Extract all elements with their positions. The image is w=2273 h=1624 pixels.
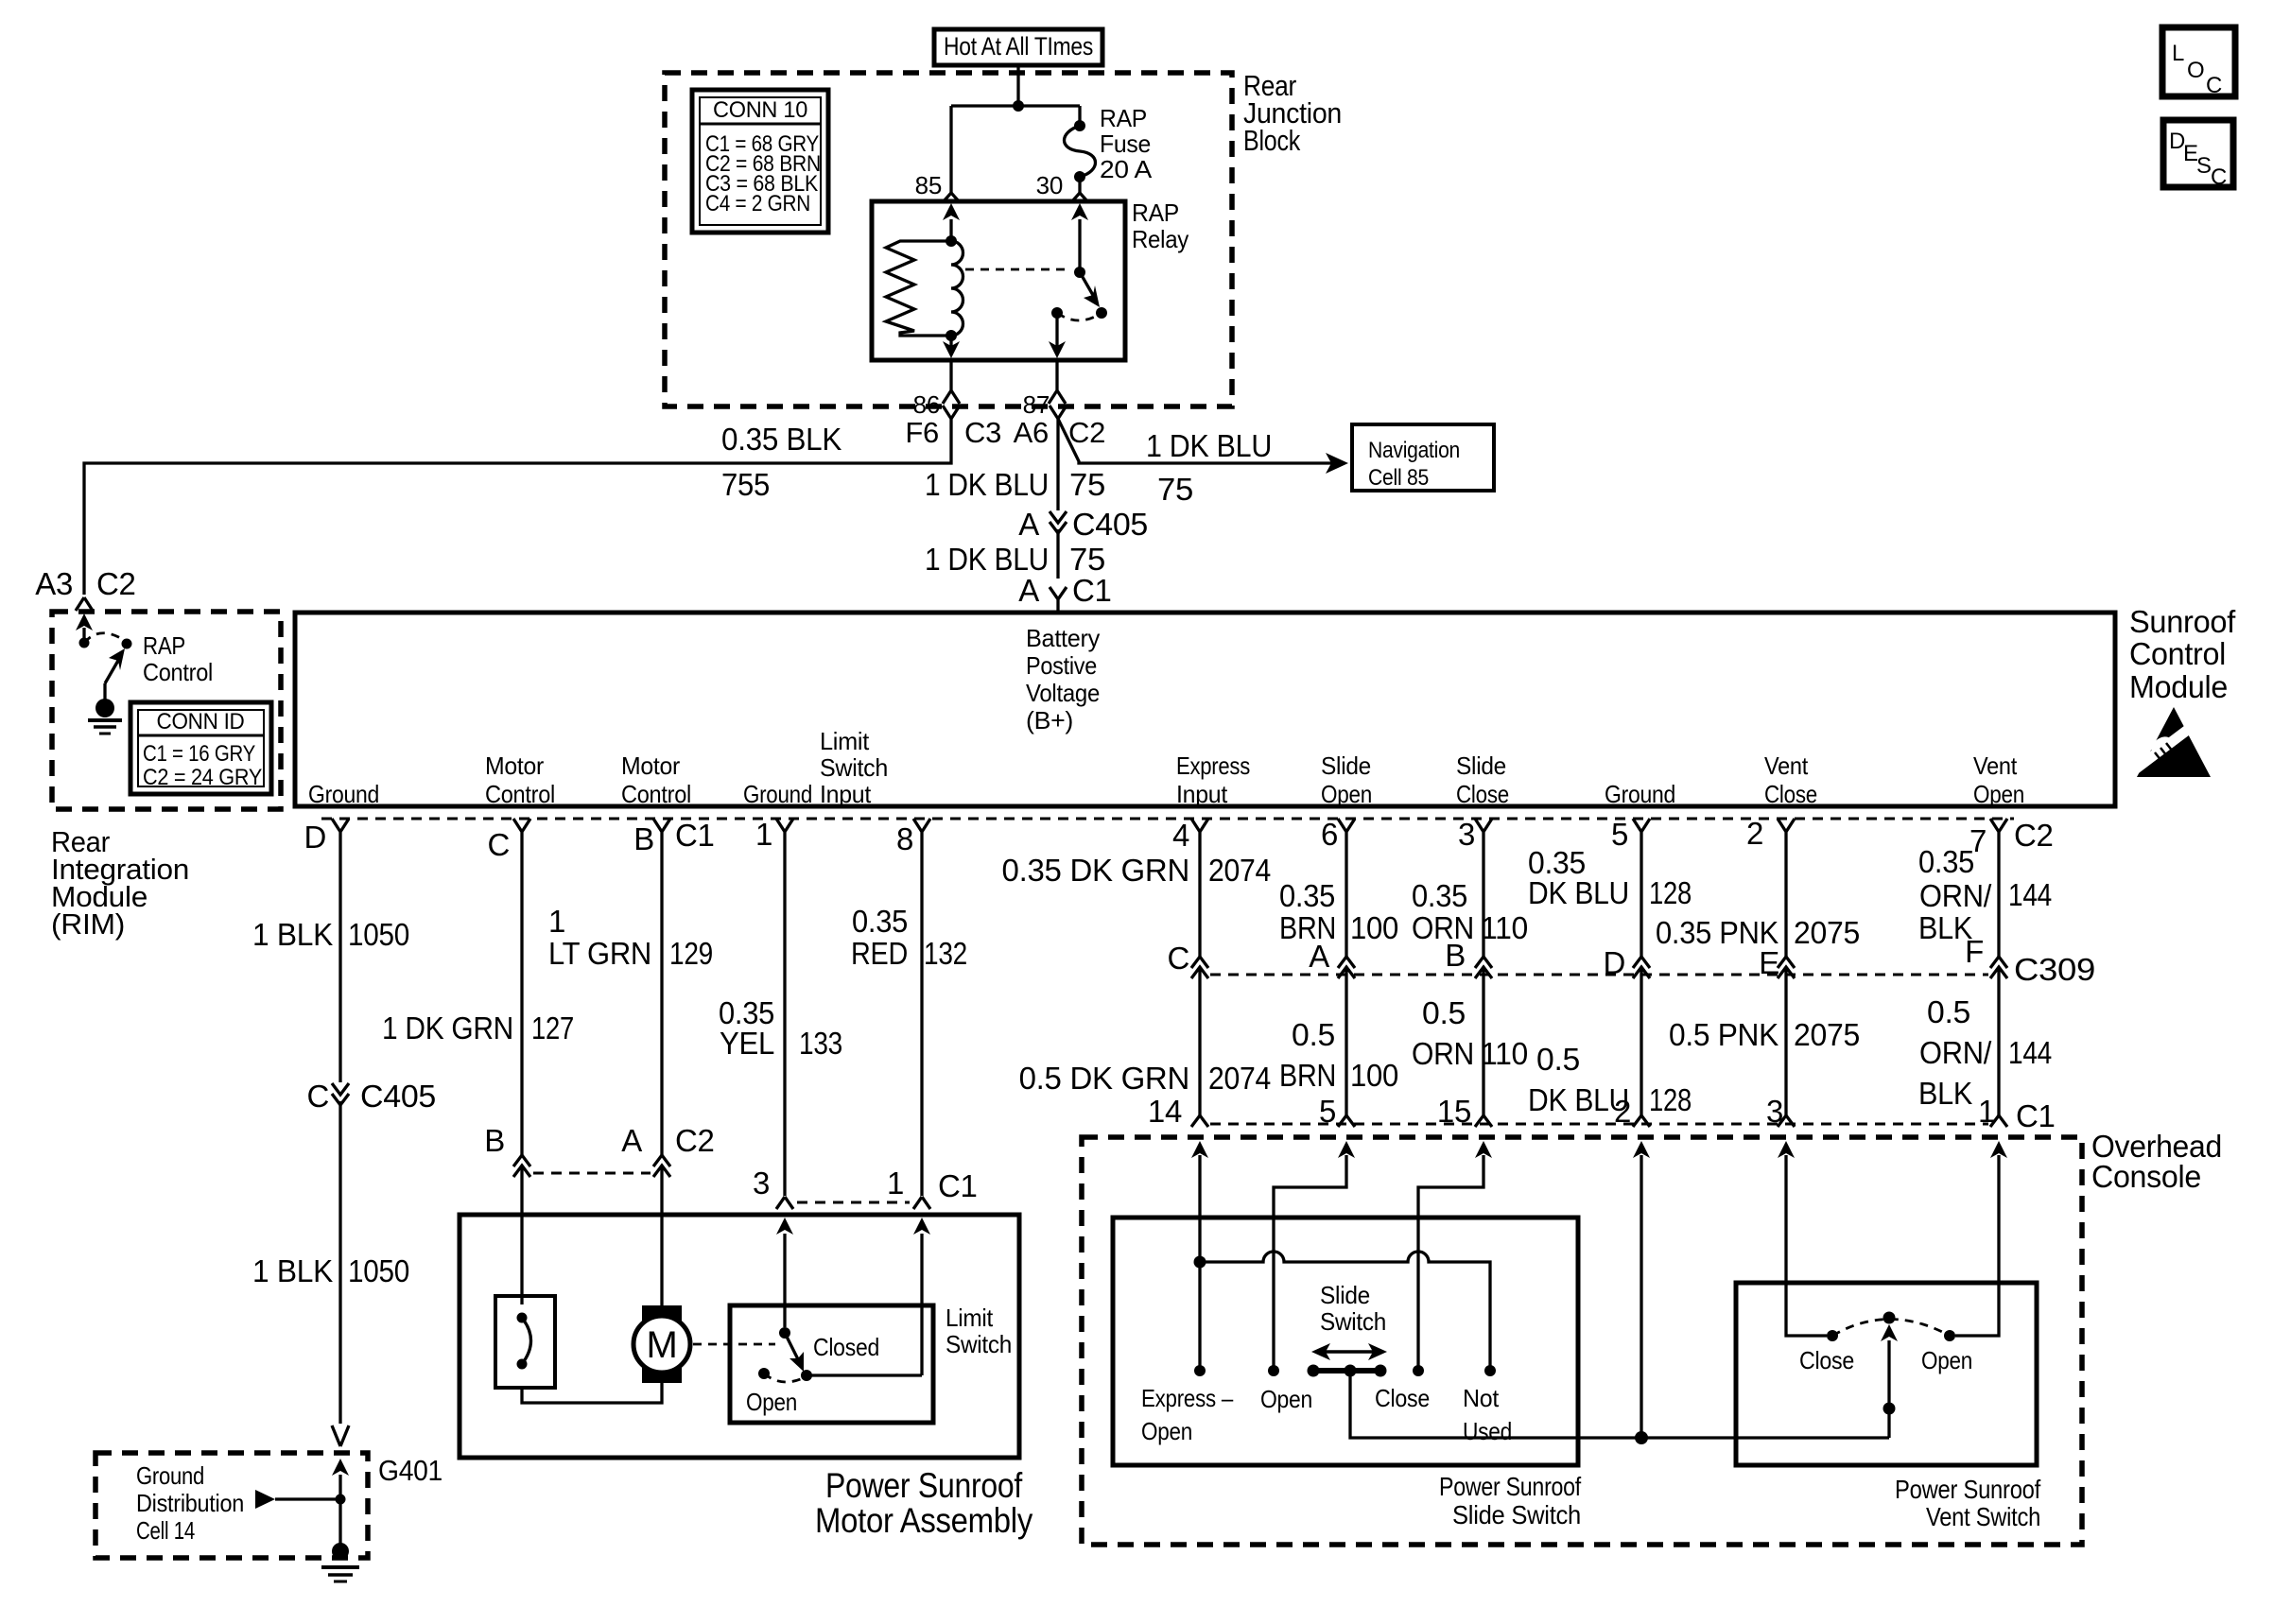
arrowhead navigation	[1326, 453, 1348, 474]
RAP control ground symbol	[88, 720, 122, 734]
contact dots	[1194, 1365, 1206, 1376]
rear junction block dashed box	[665, 73, 1232, 406]
console entry arrow wire 5	[1274, 1155, 1346, 1371]
svg-text:1050: 1050	[348, 917, 409, 952]
wire D lower	[338, 1101, 341, 1424]
svg-text:Open: Open	[1321, 780, 1372, 808]
CONN ID table	[130, 702, 271, 794]
svg-text:Open: Open	[746, 1388, 797, 1416]
svg-text:CONN ID: CONN ID	[157, 709, 245, 734]
wire upper x=1269	[1198, 870, 1201, 957]
slide double arrow	[1311, 1343, 1387, 1360]
svg-text:Vent: Vent	[1764, 752, 1809, 780]
svg-text:Open: Open	[1973, 780, 2024, 808]
svg-text:Input: Input	[820, 780, 872, 808]
RAP control switch arm	[105, 648, 125, 700]
dashed mechanical linkage	[693, 1343, 775, 1346]
RAP control ground dot	[95, 699, 114, 717]
svg-text:Limit: Limit	[946, 1304, 994, 1332]
svg-text:75: 75	[1157, 472, 1193, 507]
svg-text:2074: 2074	[1208, 853, 1271, 888]
wire battery mid	[1056, 529, 1059, 579]
LOC box	[2162, 27, 2235, 98]
CONN 10 table	[692, 90, 828, 233]
svg-text:RED: RED	[851, 936, 908, 971]
svg-text:128: 128	[1649, 1082, 1692, 1117]
svg-text:ORN/: ORN/	[1919, 878, 1992, 913]
svg-text:87: 87	[1023, 390, 1050, 419]
pin 85 fork	[943, 193, 960, 202]
wire upper x=1889	[1784, 870, 1787, 957]
vent switch box	[1736, 1283, 2037, 1465]
wire 1 ground	[783, 870, 786, 1196]
svg-text:O: O	[2187, 58, 2204, 83]
svg-text:Open: Open	[1141, 1417, 1192, 1445]
svg-text:C1 = 16 GRY: C1 = 16 GRY	[143, 741, 255, 767]
svg-text:6: 6	[1321, 817, 1338, 852]
svg-text:4: 4	[1172, 818, 1189, 853]
svg-text:Control: Control	[621, 780, 691, 808]
limit switch box	[730, 1305, 933, 1423]
svg-text:8: 8	[896, 821, 913, 856]
svg-text:LT GRN: LT GRN	[548, 936, 651, 971]
ground G401 symbol	[332, 1543, 349, 1560]
svg-text:RAP: RAP	[1132, 199, 1179, 227]
svg-text:Open: Open	[1921, 1346, 1972, 1374]
svg-text:110: 110	[1481, 910, 1528, 945]
svg-text:C1: C1	[938, 1168, 978, 1203]
relay contacts	[1051, 307, 1107, 320]
svg-text:Block: Block	[1243, 124, 1301, 157]
svg-text:C2: C2	[1068, 416, 1105, 449]
svg-text:C405: C405	[1072, 507, 1148, 542]
svg-text:14: 14	[1148, 1094, 1182, 1129]
power sunroof motor assembly box	[460, 1215, 1019, 1458]
svg-text:1 BLK: 1 BLK	[252, 917, 333, 952]
svg-text:C309: C309	[2014, 952, 2095, 987]
relay coil	[946, 235, 963, 341]
svg-text:Slide: Slide	[1321, 752, 1371, 780]
svg-text:Ground: Ground	[743, 780, 812, 808]
G401 dashed box	[95, 1453, 368, 1558]
module pin row dashed line	[321, 818, 2014, 821]
svg-text:Control: Control	[143, 658, 213, 686]
svg-text:G401: G401	[378, 1454, 442, 1487]
svg-text:2: 2	[1746, 816, 1763, 851]
bus wire with hops	[1200, 1252, 1490, 1371]
svg-text:C: C	[306, 1079, 329, 1114]
svg-text:F6: F6	[905, 416, 939, 449]
slide switch box	[1113, 1218, 1578, 1465]
svg-text:0.35: 0.35	[852, 904, 908, 939]
svg-text:ORN: ORN	[1412, 1036, 1474, 1071]
junction dot wire 2 output	[1635, 1431, 1648, 1444]
triangle pointer	[255, 1490, 275, 1509]
svg-text:Voltage: Voltage	[1026, 679, 1100, 707]
bus junction dot	[1194, 1256, 1206, 1269]
svg-text:144: 144	[2008, 1035, 2052, 1070]
svg-text:C1: C1	[675, 818, 715, 853]
wire C	[520, 870, 523, 1155]
svg-text:C405: C405	[360, 1079, 436, 1114]
svg-text:129: 129	[669, 936, 713, 971]
svg-text:Relay: Relay	[1132, 225, 1189, 253]
pin 30 fork	[1071, 193, 1088, 202]
svg-text:Closed: Closed	[813, 1333, 879, 1361]
wire 3 arrow into motor box	[783, 1234, 786, 1327]
F6 fork connector	[943, 406, 960, 461]
A6 fork connector	[1050, 406, 1067, 510]
svg-text:1 DK BLU: 1 DK BLU	[925, 467, 1049, 502]
svg-text:Distribution: Distribution	[136, 1489, 244, 1517]
relay output to pin 87 arrow down	[1055, 313, 1058, 346]
svg-text:M: M	[646, 1324, 677, 1366]
svg-text:L: L	[2172, 41, 2184, 66]
svg-text:Slide: Slide	[1320, 1281, 1370, 1309]
svg-text:DK BLU: DK BLU	[1528, 875, 1629, 910]
ground wire arrow in G401	[338, 1475, 341, 1551]
svg-text:Close: Close	[1456, 780, 1509, 808]
svg-text:85: 85	[915, 171, 942, 199]
svg-text:Express: Express	[1176, 752, 1250, 780]
slide common output wire	[1350, 1371, 1889, 1438]
pin forks	[332, 819, 349, 870]
svg-text:Input: Input	[1176, 780, 1228, 808]
motor M	[633, 1305, 690, 1383]
svg-text:C3: C3	[964, 416, 1001, 449]
relay resistor	[886, 241, 951, 336]
svg-text:Switch: Switch	[946, 1330, 1012, 1358]
svg-text:0.5 DK GRN: 0.5 DK GRN	[1019, 1061, 1189, 1096]
svg-text:1: 1	[755, 817, 772, 852]
svg-text:Power Sunroof: Power Sunroof	[825, 1466, 1023, 1505]
wire from hot box	[1016, 65, 1019, 106]
pin 86 wire	[943, 360, 960, 404]
wire D upper	[338, 870, 341, 1082]
svg-text:C2: C2	[675, 1123, 715, 1158]
svg-text:Close: Close	[1764, 780, 1817, 808]
svg-text:F: F	[1965, 934, 1984, 969]
svg-text:Used: Used	[1463, 1417, 1512, 1445]
junction node dot	[1013, 100, 1024, 112]
svg-text:(B+): (B+)	[1026, 706, 1073, 734]
G401 fork	[332, 1425, 349, 1446]
svg-text:75: 75	[1069, 467, 1105, 502]
svg-text:C: C	[2211, 164, 2227, 190]
svg-text:755: 755	[721, 467, 770, 502]
svg-text:Power Sunroof: Power Sunroof	[1895, 1475, 2040, 1504]
svg-text:YEL: YEL	[720, 1026, 774, 1061]
svg-text:0.5: 0.5	[1292, 1017, 1335, 1052]
svg-text:C: C	[2206, 73, 2222, 98]
svg-text:Fuse: Fuse	[1100, 130, 1151, 158]
svg-text:132: 132	[924, 936, 967, 971]
wire breaker to motor	[522, 1383, 662, 1403]
svg-text:Ground: Ground	[308, 780, 379, 808]
vent common wire arrow	[1881, 1324, 1898, 1438]
svg-text:75: 75	[1069, 542, 1105, 577]
svg-text:Ground: Ground	[136, 1461, 204, 1490]
svg-text:(RIM): (RIM)	[51, 907, 125, 941]
RAP control dashed arc	[84, 633, 127, 643]
svg-text:Cell 14: Cell 14	[136, 1516, 195, 1545]
pin 87 wire	[1049, 360, 1066, 404]
RAP Fuse 20 A	[1065, 120, 1096, 193]
svg-text:2075: 2075	[1794, 1017, 1860, 1052]
svg-text:Motor: Motor	[485, 752, 545, 780]
svg-text:Switch: Switch	[1320, 1307, 1386, 1336]
svg-text:Switch: Switch	[820, 753, 888, 782]
svg-text:0.35: 0.35	[1918, 844, 1974, 879]
console entry arrow wire 2	[1640, 1155, 1642, 1438]
console entry arrow wire 15	[1418, 1155, 1484, 1371]
svg-text:B: B	[484, 1123, 505, 1158]
svg-text:RAP: RAP	[143, 631, 185, 660]
console entry arrow wire 1 vent	[1955, 1155, 1999, 1336]
wire pointer to ground wire	[275, 1497, 340, 1500]
svg-text:ORN/: ORN/	[1919, 1035, 1992, 1070]
svg-text:1 DK GRN: 1 DK GRN	[382, 1011, 513, 1045]
wire left leg to relay pin 85	[949, 106, 952, 193]
relay dashed actuator link	[965, 268, 1068, 271]
svg-text:RAP: RAP	[1100, 104, 1147, 132]
svg-text:S: S	[2196, 153, 2212, 179]
svg-text:Slide: Slide	[1456, 752, 1506, 780]
svg-text:C2: C2	[2014, 818, 2054, 853]
wire upper x=1569	[1482, 870, 1484, 957]
RAP control contact dot left	[79, 638, 90, 648]
svg-text:C2: C2	[96, 566, 136, 601]
wire 0.35 BLK 755	[84, 461, 951, 595]
svg-text:Console: Console	[2091, 1159, 2201, 1194]
svg-text:Module: Module	[2129, 669, 2228, 704]
svg-text:A: A	[621, 1123, 642, 1158]
svg-text:B: B	[1445, 938, 1466, 973]
A3 fork	[76, 597, 93, 611]
thermal breaker	[495, 1296, 555, 1388]
DESC box	[2163, 120, 2233, 190]
Hot At All Times box	[934, 29, 1102, 65]
svg-text:30: 30	[1036, 171, 1063, 199]
limit switch closed contact wire	[807, 1373, 922, 1376]
svg-text:B: B	[633, 821, 654, 856]
svg-text:C1: C1	[1072, 573, 1112, 608]
svg-text:A: A	[1018, 573, 1039, 608]
wire upper x=1736	[1640, 870, 1642, 957]
svg-text:20 A: 20 A	[1100, 155, 1153, 183]
relay coil to pin 86 arrow down	[949, 336, 952, 346]
svg-text:Ground: Ground	[1605, 780, 1675, 808]
svg-text:C1: C1	[2016, 1098, 2056, 1133]
overhead console dashed box	[1082, 1137, 2082, 1545]
svg-text:2075: 2075	[1794, 915, 1860, 950]
svg-text:0.5: 0.5	[1927, 994, 1970, 1029]
svg-text:0.5: 0.5	[1422, 995, 1466, 1030]
slider bar	[1308, 1365, 1387, 1377]
console entry arrow wire 3 vent	[1786, 1155, 1827, 1336]
svg-text:0.35: 0.35	[1279, 878, 1335, 913]
svg-text:Limit: Limit	[820, 727, 870, 755]
svg-text:Motor: Motor	[621, 752, 681, 780]
svg-text:Battery: Battery	[1026, 624, 1100, 652]
svg-text:Control: Control	[2129, 636, 2226, 671]
svg-text:A6: A6	[1014, 416, 1049, 449]
svg-text:1 DK BLU: 1 DK BLU	[1146, 428, 1272, 463]
sunroof control module box	[295, 613, 2115, 806]
connector A C1	[1018, 573, 1111, 613]
svg-text:Vent: Vent	[1973, 752, 2018, 780]
relay switch pin arrow	[1078, 219, 1081, 272]
wire horizontal branch	[951, 104, 1080, 107]
wire 1 arrow into motor box	[920, 1234, 923, 1375]
wire branch to navigation	[1058, 419, 1334, 463]
svg-text:128: 128	[1649, 875, 1692, 910]
console entry arrow wire 14	[1198, 1155, 1201, 1262]
svg-text:0.5 PNK: 0.5 PNK	[1669, 1017, 1778, 1052]
svg-text:1 BLK: 1 BLK	[252, 1253, 333, 1288]
svg-text:A3: A3	[35, 566, 73, 601]
svg-text:127: 127	[531, 1011, 574, 1045]
svg-text:3: 3	[1458, 817, 1475, 852]
svg-text:Postive: Postive	[1026, 651, 1097, 680]
svg-text:110: 110	[1481, 1036, 1528, 1071]
svg-text:1: 1	[548, 904, 565, 939]
svg-text:86: 86	[913, 390, 940, 419]
svg-text:Hot At All TImes: Hot At All TImes	[944, 32, 1093, 60]
RAP relay box	[872, 201, 1125, 360]
wire B	[660, 870, 663, 1155]
svg-text:1050: 1050	[348, 1253, 409, 1288]
svg-text:133: 133	[799, 1026, 842, 1061]
connector C309 row	[1167, 934, 2095, 1115]
vent switch contacts	[1827, 1312, 1955, 1342]
svg-text:C: C	[487, 827, 510, 862]
connector C1 row to console	[1148, 1094, 2056, 1133]
wire express open contact	[1198, 1262, 1201, 1371]
svg-text:2074: 2074	[1208, 1061, 1271, 1096]
RAP control arrow	[82, 628, 85, 643]
svg-text:100: 100	[1350, 1058, 1398, 1093]
svg-text:Express –: Express –	[1141, 1384, 1234, 1412]
svg-text:Open: Open	[1260, 1385, 1312, 1413]
svg-text:BLK: BLK	[1918, 1076, 1972, 1111]
svg-text:Control: Control	[485, 780, 555, 808]
svg-text:Motor Assembly: Motor Assembly	[815, 1501, 1033, 1540]
limit switch pivot arm	[758, 1327, 812, 1382]
svg-text:C4 = 2 GRN: C4 = 2 GRN	[705, 191, 810, 216]
svg-text:100: 100	[1350, 910, 1398, 945]
svg-text:0.35 DK GRN: 0.35 DK GRN	[1002, 853, 1189, 888]
connector C C405 on wire D	[306, 1079, 436, 1114]
svg-text:BRN: BRN	[1279, 1058, 1336, 1093]
svg-text:0.5: 0.5	[1536, 1042, 1580, 1077]
svg-text:C2 = 24 GRY: C2 = 24 GRY	[143, 765, 262, 790]
svg-text:Power Sunroof: Power Sunroof	[1439, 1472, 1581, 1501]
svg-text:Sunroof: Sunroof	[2129, 604, 2236, 639]
svg-text:1 DK BLU: 1 DK BLU	[925, 542, 1049, 577]
RAP control contact dot right	[122, 639, 132, 649]
svg-text:Not: Not	[1463, 1384, 1500, 1412]
wire 8 limit switch input	[920, 870, 923, 1196]
svg-text:CONN 10: CONN 10	[713, 97, 807, 123]
svg-text:A: A	[1018, 507, 1039, 542]
svg-text:Slide Switch: Slide Switch	[1452, 1500, 1581, 1529]
svg-text:Close: Close	[1375, 1384, 1430, 1412]
svg-text:Vent Switch: Vent Switch	[1926, 1502, 2040, 1531]
svg-text:C: C	[1167, 941, 1189, 976]
wire upper x=1424	[1345, 870, 1347, 957]
connector B/A C2 chevrons	[484, 1123, 714, 1306]
svg-text:5: 5	[1611, 817, 1628, 852]
relay switch arm	[1074, 267, 1100, 307]
wire upper x=2114	[1997, 870, 2000, 957]
svg-text:0.35: 0.35	[1412, 878, 1467, 913]
svg-text:0.35 BLK: 0.35 BLK	[721, 422, 842, 457]
relay coil pin arrow	[949, 219, 952, 241]
ESD warning symbol	[2131, 707, 2211, 777]
navigation cell 85 box	[1352, 424, 1494, 491]
svg-text:D: D	[304, 820, 326, 855]
svg-text:1: 1	[887, 1166, 904, 1201]
svg-text:Close: Close	[1799, 1346, 1854, 1374]
RIM dashed box	[52, 612, 281, 809]
connector A C405	[1018, 507, 1148, 542]
svg-text:Cell 85: Cell 85	[1368, 465, 1429, 491]
wire right leg to fuse	[1078, 106, 1081, 126]
svg-text:A: A	[1309, 939, 1329, 974]
svg-text:Navigation: Navigation	[1368, 438, 1460, 463]
svg-text:144: 144	[2008, 877, 2052, 912]
svg-text:3: 3	[753, 1166, 770, 1201]
connector 3/1 C1 into motor	[753, 1166, 978, 1209]
